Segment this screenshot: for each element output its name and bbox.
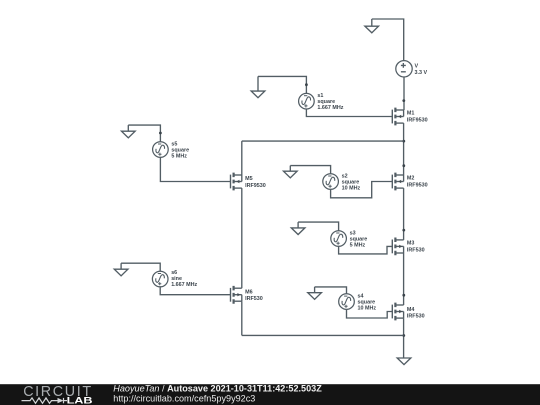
wire top ground to V+ — [372, 19, 404, 61]
voltage source V 3.3 V — [396, 61, 412, 77]
svg-text:M1: M1 — [407, 111, 415, 117]
svg-text:M4: M4 — [407, 307, 415, 313]
ground GND2 for s1 — [251, 76, 265, 97]
wire s1 bottom to M1 gate — [306, 109, 392, 117]
svg-text:IRF530: IRF530 — [245, 296, 263, 302]
svg-text:IRF9530: IRF9530 — [407, 117, 428, 123]
svg-text:IRF9530: IRF9530 — [407, 182, 428, 188]
wire s5 ground to s5 top — [128, 125, 160, 142]
transistor M3 IRF530 — [392, 238, 403, 256]
ground GND7 for s6 — [114, 263, 128, 276]
svg-text:M5: M5 — [245, 176, 253, 182]
svg-text:V: V — [415, 63, 419, 69]
transistor M1 IRF9530 — [392, 108, 403, 126]
ground GND6 for s4 — [308, 287, 322, 299]
svg-text:IRF9530: IRF9530 — [245, 183, 266, 189]
wire s3 ground to s3 top — [298, 222, 339, 231]
ground GND4 for s2 — [284, 166, 298, 178]
wire s1 ground to s1 top — [258, 76, 306, 93]
junction dot M4 drain pin — [402, 294, 405, 297]
svg-text:IRF530: IRF530 — [407, 314, 425, 320]
wire bottom horizontal — [242, 334, 404, 336]
ground GND8 bottom — [397, 358, 411, 365]
wire s5 bottom to M5 gate — [160, 157, 230, 181]
wire s4 bottom to M4 gate — [347, 309, 393, 318]
source s2 square 10 MHz — [323, 174, 339, 190]
junction dot s5 top pin — [159, 132, 162, 135]
svg-text:M2: M2 — [407, 176, 415, 182]
source s1 square 1.667 MHz — [299, 93, 315, 109]
transistor M6 IRF530 — [231, 286, 242, 304]
source s5 square 5 MHz — [153, 142, 169, 158]
wire V- to M1 drain — [403, 77, 405, 110]
svg-text:3.3 V: 3.3 V — [415, 70, 428, 76]
footer bar — [0, 384, 540, 405]
svg-text:1.667 MHz: 1.667 MHz — [317, 105, 343, 111]
wire s6 bottom to M6 gate — [160, 287, 230, 295]
wire M2 source to M3 drain — [403, 188, 405, 240]
svg-text:1.667 MHz: 1.667 MHz — [171, 282, 197, 288]
wire s6 ground to s6 top — [121, 263, 160, 271]
wire s2 ground to s2 top — [290, 166, 330, 174]
svg-text:M3: M3 — [407, 241, 415, 247]
junction dot s1 top pin — [305, 83, 308, 86]
transistor M4 IRF530 — [392, 303, 403, 321]
svg-text:10 MHz: 10 MHz — [358, 306, 377, 312]
transistor M2 IRF9530 — [392, 173, 403, 191]
ground GND1 top right — [365, 19, 379, 33]
svg-text:M6: M6 — [245, 289, 253, 295]
svg-text:5 MHz: 5 MHz — [171, 154, 187, 160]
wire left rail upper — [241, 141, 243, 175]
wire left rail lower — [241, 301, 243, 335]
wire s2 bottom to M2 gate — [331, 182, 393, 198]
svg-text:http://circuitlab.com/cefn5py9: http://circuitlab.com/cefn5py9y92c3 — [113, 393, 255, 403]
junction dot V-M1 — [402, 99, 405, 102]
svg-text:HaoyueTan / Autosave 2021-10-3: HaoyueTan / Autosave 2021-10-31T11:42:52… — [113, 383, 322, 393]
wire M1 source to M2 drain — [403, 123, 405, 175]
svg-text:IRF530: IRF530 — [407, 247, 425, 253]
source s4 square 10 MHz — [339, 294, 355, 310]
transistor M5 IRF9530 — [231, 173, 242, 191]
wire M4 source to bottom node — [403, 318, 405, 358]
svg-text:10 MHz: 10 MHz — [342, 186, 361, 192]
source s3 square 5 MHz — [331, 231, 347, 247]
junction dot M2 drain pin — [402, 164, 405, 167]
junction dot rail-left branch — [402, 140, 405, 143]
source s6 sine 1.667 MHz — [152, 271, 168, 287]
wire s4 ground to s4 top — [315, 287, 347, 294]
wire s3 bottom to M3 gate — [339, 246, 393, 254]
wire left branch horizontal top — [242, 140, 404, 142]
junction dot M3 drain pin — [402, 229, 405, 232]
svg-text:LAB: LAB — [67, 396, 93, 405]
svg-text:5 MHz: 5 MHz — [350, 243, 366, 249]
footer logo wire-resistor-diode — [22, 398, 68, 403]
wire left rail middle — [241, 188, 243, 288]
junction dot bottom node — [402, 334, 405, 337]
ground GND5 for s3 — [291, 222, 305, 234]
ground GND3 for s5 — [122, 125, 136, 138]
wire M3 source to M4 drain — [403, 253, 405, 305]
